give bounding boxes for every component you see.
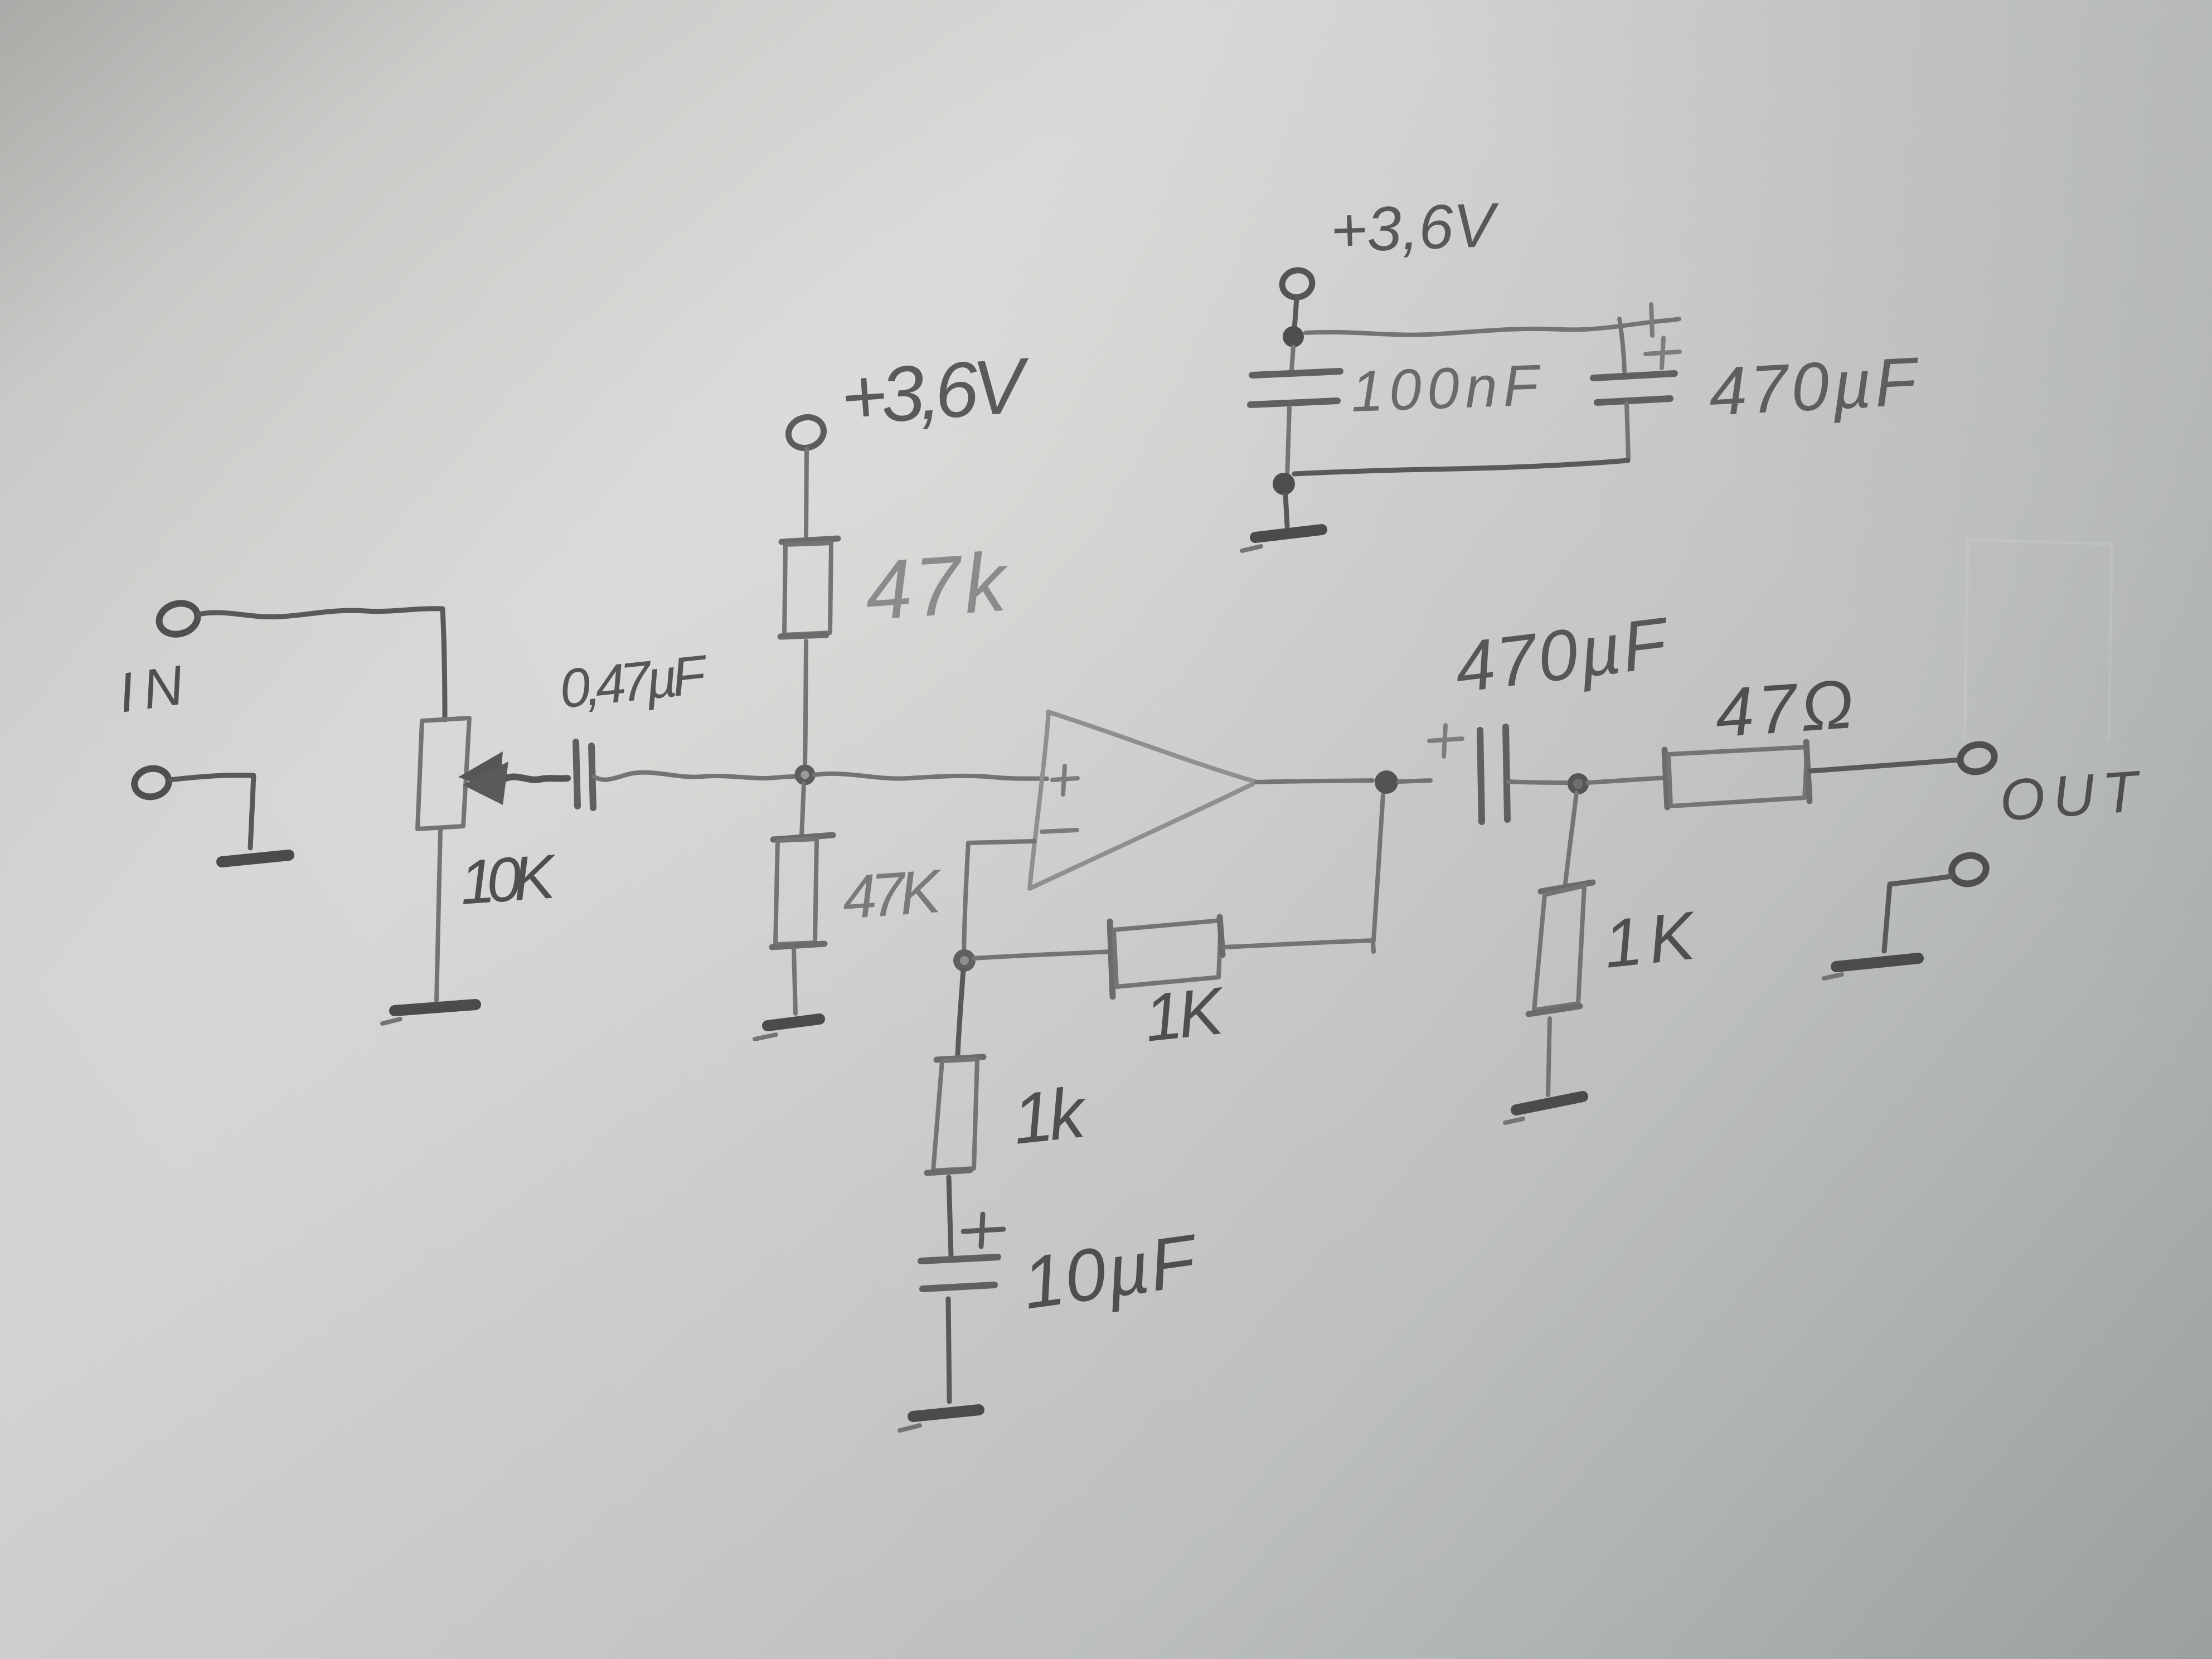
wire OUT bottom to ground [1884, 876, 1951, 951]
wire 100nF down [1287, 408, 1289, 477]
terminal IN bottom [132, 765, 171, 800]
ground (load) [1516, 1097, 1583, 1110]
svg-text:1k: 1k [1009, 1073, 1092, 1160]
svg-text:47Ω: 47Ω [1713, 666, 1856, 752]
svg-text:IN: IN [114, 654, 187, 725]
node supply junction [1283, 326, 1304, 347]
svg-text:100nF: 100nF [1350, 353, 1542, 424]
op-amp - input marker [1042, 830, 1077, 832]
G_SUPPLY [1242, 190, 1922, 551]
svg-text:+3,6V: +3,6V [838, 341, 1034, 441]
op-amp + input marker [1052, 766, 1078, 794]
capacitor C5 10uF top plate [921, 1257, 998, 1261]
G_BIAS [755, 341, 1047, 1039]
capacitor C4 470uF left plate [1480, 730, 1482, 822]
terminal +3,6V bias [784, 413, 828, 452]
resistor R3 1K (feedback) [1110, 921, 1113, 997]
G_OPAMP [900, 712, 1430, 1430]
svg-text:47K: 47K [840, 857, 945, 932]
G_OUTPUT [1429, 540, 2143, 1123]
capacitor C2 100nF bottom plate [1250, 401, 1337, 405]
wire R5 to OUT [1811, 760, 1960, 771]
wire bottom rail [1294, 460, 1628, 474]
wire node B down to R6 [958, 970, 963, 1055]
node C (output node) [1375, 770, 1398, 794]
wire node D to R5 [1588, 778, 1666, 783]
capacitor C2 100nF top plate [1252, 371, 1340, 375]
svg-text:1K: 1K [1141, 973, 1229, 1055]
capacitor C4 470uF plus sign [1429, 725, 1462, 756]
ground (input) [222, 855, 289, 862]
terminal +3,6V supply [1279, 267, 1315, 300]
wire node A to op-amp + [814, 774, 1047, 779]
capacitor C1 0,47uF left plate [576, 742, 578, 806]
wire node B to R3 [974, 952, 1111, 958]
node A (bias node) [798, 768, 812, 782]
potentiometer P1 10K body [418, 718, 469, 829]
resistor R2 47K [773, 835, 833, 840]
wire node to ground [1286, 495, 1287, 526]
svg-text:+3,6V: +3,6V [1329, 190, 1501, 265]
svg-text:47k: 47k [862, 534, 1013, 638]
potentiometer wiper arrow [506, 777, 567, 779]
capacitor C4 470uF right plate [1506, 727, 1507, 819]
terminal IN top [156, 599, 201, 638]
ground (C5) [913, 1410, 979, 1417]
faint page imprint [1964, 540, 2112, 741]
wire terminal to node [1294, 298, 1297, 329]
node ground junction [1273, 473, 1295, 495]
wire 470uF to bottom rail [1627, 404, 1628, 458]
wire rail corner down [1619, 319, 1624, 371]
svg-text:10K: 10K [458, 841, 560, 918]
wire R3 to output corner [1224, 940, 1374, 947]
wire node C to C4 [1399, 780, 1430, 782]
capacitor C1 0,47uF right plate [591, 746, 593, 808]
G_INPUT [114, 599, 808, 1023]
svg-text:OUT: OUT [1998, 759, 2144, 833]
wire op-amp output [1257, 780, 1372, 782]
wire C5 to ground [948, 1299, 949, 1401]
terminal OUT bottom [1949, 852, 1988, 887]
capacitor C5 10uF plus sign [963, 1214, 1003, 1246]
wire node to 100nF [1292, 347, 1293, 370]
wire node D down to R4 [1565, 793, 1576, 889]
wire pot bottom to ground [436, 830, 440, 1001]
ground (bias) [768, 1019, 819, 1026]
terminal OUT top [1957, 741, 1997, 775]
wire node A down to R2 [802, 784, 804, 836]
capacitor C5 10uF bottom plate [923, 1285, 995, 1289]
wire - input to feedback node [964, 841, 1034, 955]
wire R4 to ground [1548, 1018, 1550, 1095]
ground (supply) [1255, 530, 1322, 537]
capacitor C3 470uF plus sign [1646, 338, 1680, 368]
capacitor C3 470uF bottom plate [1597, 399, 1670, 402]
wire R1 to node A [805, 641, 806, 767]
op-amp U1 triangle [1030, 713, 1049, 889]
resistor R1 47k [782, 539, 838, 542]
node D [1570, 776, 1586, 792]
wire corner up to output node [1374, 795, 1383, 940]
wire C4 to node D [1508, 782, 1570, 783]
node B (feedback node) [957, 953, 972, 968]
wire R2 to ground [794, 949, 795, 1013]
svg-text:470µF: 470µF [1707, 343, 1922, 430]
wire terminal to R1 [806, 449, 807, 537]
wire R6 to C5 [949, 1177, 951, 1256]
resistor R5 47R [1665, 750, 1667, 807]
ground (pot) [395, 1005, 476, 1011]
resistor R6 1k [937, 1057, 983, 1060]
wire top rail [1306, 319, 1679, 335]
resistor R4 1K (load) [1541, 882, 1593, 891]
wire IN top to pot [198, 609, 443, 617]
tick near plus [1651, 304, 1652, 336]
capacitor C3 470uF top plate [1593, 373, 1675, 378]
ground (out) [1836, 958, 1918, 967]
wire C1 to bias node [594, 773, 809, 780]
wire IN bottom to ground [170, 775, 254, 848]
